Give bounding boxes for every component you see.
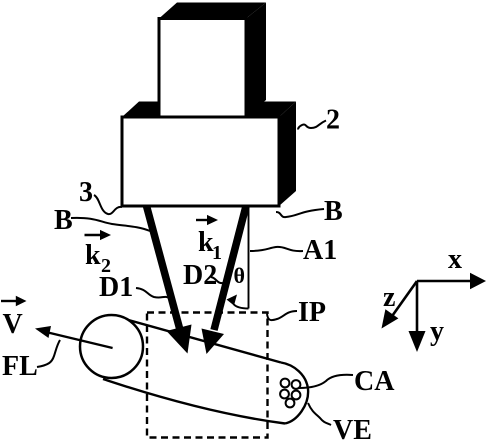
svg-text:V: V [3,309,23,340]
leader for 3 [94,195,122,214]
vector k2 [85,234,102,236]
beam D1 [147,206,181,330]
svg-text:A1: A1 [303,235,337,266]
svg-text:3: 3 [79,177,93,208]
fiber cores VE [281,379,290,388]
beam D2 [214,206,246,330]
leader B right [276,209,324,217]
svg-text:θ: θ [234,263,245,288]
leader IP [267,311,297,320]
cylinder left end circle [80,315,143,378]
svg-text:IP: IP [298,297,326,328]
svg-text:VE: VE [333,415,372,444]
velocity arrow [48,333,113,349]
leader VE [308,403,331,425]
box 2 top face [122,102,296,118]
svg-text:CA: CA [354,366,395,397]
svg-text:y: y [430,316,444,347]
leader FL [37,340,60,367]
svg-text:2: 2 [326,105,340,136]
leader D1 [136,288,169,298]
laser head box front face [159,19,246,118]
cylinder top line [118,317,282,363]
leader B left [71,218,150,231]
angle theta arc arrow [234,304,249,309]
leader 2 [298,121,326,130]
axis y [416,281,419,335]
box 2 right face [279,102,296,207]
laser head box right face [246,3,266,117]
dashed box IP [147,313,268,438]
svg-text:B: B [324,196,343,227]
box 2 front face [122,117,279,206]
svg-text:D1: D1 [99,272,133,303]
svg-text:D2: D2 [183,260,217,291]
vector V label [1,300,16,302]
leader CA [299,375,353,388]
axis x [417,280,473,283]
vector k1 [196,219,208,221]
leader D2 [211,277,224,283]
svg-text:B: B [54,205,73,236]
leader A1 [250,247,303,251]
svg-text:FL: FL [2,351,38,382]
laser head box top face [159,3,266,19]
axis z [390,281,417,319]
svg-text:x: x [448,244,462,275]
cylinder right cap [281,363,308,424]
svg-text:k: k [85,240,101,271]
svg-text:z: z [383,282,395,313]
reference line A1 [248,207,250,309]
cylinder bottom line [103,379,285,424]
